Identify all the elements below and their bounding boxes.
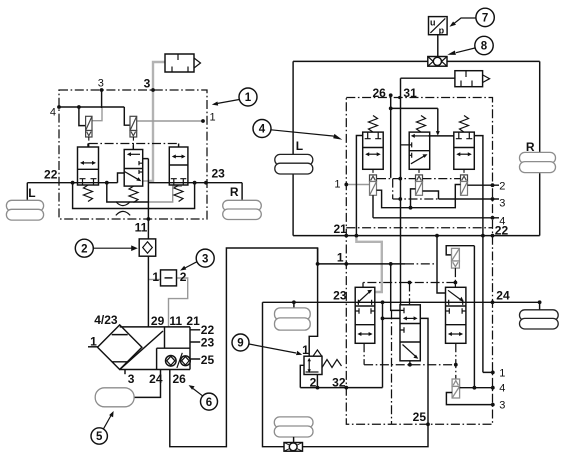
svg-text:R: R — [230, 185, 239, 199]
svg-text:26: 26 — [173, 372, 187, 386]
svg-text:31: 31 — [403, 86, 417, 100]
svg-text:11: 11 — [169, 314, 182, 328]
svg-text:5: 5 — [96, 431, 103, 443]
svg-text:3: 3 — [98, 78, 104, 90]
svg-text:1: 1 — [499, 367, 505, 379]
svg-text:1: 1 — [245, 92, 252, 104]
svg-text:11: 11 — [135, 221, 148, 235]
svg-text:4/23: 4/23 — [94, 313, 118, 327]
svg-text:R: R — [526, 140, 535, 154]
svg-text:22: 22 — [44, 167, 58, 181]
svg-text:25: 25 — [201, 353, 215, 367]
svg-text:21: 21 — [333, 222, 347, 236]
svg-text:4: 4 — [50, 107, 56, 119]
svg-text:3: 3 — [144, 77, 151, 91]
svg-text:3: 3 — [499, 197, 505, 209]
svg-text:9: 9 — [237, 338, 243, 350]
svg-text:2: 2 — [81, 243, 87, 255]
svg-text:29: 29 — [151, 314, 165, 328]
svg-text:L: L — [28, 186, 35, 200]
svg-text:3: 3 — [128, 372, 135, 386]
svg-text:1: 1 — [302, 343, 309, 357]
svg-text:3: 3 — [202, 253, 208, 265]
svg-text:4: 4 — [499, 383, 505, 395]
svg-text:25: 25 — [413, 410, 427, 424]
svg-text:1: 1 — [152, 270, 159, 284]
svg-text:6: 6 — [206, 397, 212, 409]
svg-text:4: 4 — [259, 124, 266, 136]
svg-text:1: 1 — [337, 251, 344, 265]
svg-text:p: p — [439, 25, 445, 35]
svg-text:3: 3 — [499, 400, 505, 412]
svg-text:23: 23 — [333, 289, 347, 303]
svg-text:23: 23 — [212, 167, 226, 181]
svg-text:32: 32 — [332, 376, 346, 390]
svg-text:2: 2 — [180, 270, 187, 284]
svg-text:u: u — [430, 18, 436, 28]
svg-text:24: 24 — [496, 288, 510, 302]
svg-text:26: 26 — [372, 86, 386, 100]
svg-text:7: 7 — [482, 13, 488, 25]
svg-text:L: L — [296, 139, 303, 153]
svg-text:8: 8 — [481, 41, 488, 53]
svg-text:2: 2 — [310, 376, 317, 390]
svg-text:22: 22 — [495, 223, 509, 237]
svg-text:21: 21 — [186, 314, 200, 328]
svg-text:23: 23 — [201, 336, 215, 350]
svg-text:1: 1 — [210, 112, 216, 124]
svg-text:2: 2 — [499, 181, 505, 193]
svg-text:1: 1 — [334, 179, 340, 191]
